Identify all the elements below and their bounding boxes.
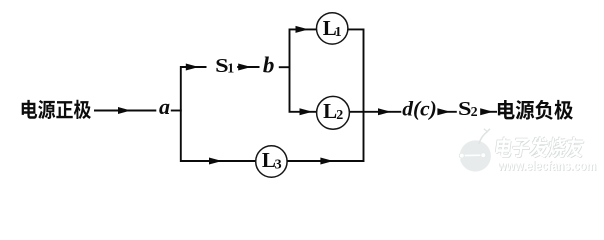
arrowhead: L3 toward right vertical [320, 158, 333, 165]
svg-text:2: 2 [336, 108, 343, 123]
wire: node a dash [171, 110, 182, 112]
svg-text:a: a [159, 94, 170, 119]
svg-text:d(c): d(c) [402, 96, 437, 120]
svg-text:1: 1 [227, 62, 234, 77]
arrowhead: S1 toward b [238, 64, 251, 71]
svg-text:3: 3 [275, 158, 282, 173]
wire: S2 to negative terminal [481, 111, 497, 113]
svg-text:2: 2 [471, 105, 478, 120]
svg-text:L: L [323, 99, 337, 123]
wire: b dash to split vertical [279, 66, 290, 68]
lamp L1 [317, 13, 348, 44]
arrowhead: junction toward d(c) [378, 108, 391, 115]
arrowhead: S2 toward negative terminal [480, 108, 493, 115]
wire: positive terminal to node a [94, 110, 156, 112]
arrowhead: toward a [118, 107, 131, 114]
svg-text:www.elecfans.com: www.elecfans.com [497, 158, 596, 174]
arrowhead: toward L3 [209, 158, 222, 165]
wire: split vertical with branches to L1 and L2 [290, 29, 317, 111]
arrowhead: into L2 [300, 108, 313, 115]
arrowhead: toward S1 [186, 64, 199, 71]
lamp L2 [317, 96, 350, 129]
wire: vertical from a, top branch to S1, bottom branch to L3 [181, 67, 256, 161]
arrowhead: into L1 [296, 26, 309, 33]
watermark text 电子发烧友 [494, 136, 585, 158]
wire: d(c) to S2 [438, 111, 457, 113]
lamp L3 [256, 146, 287, 177]
wire: S1 to b [237, 66, 259, 68]
wire: L1 to right vertical down to L3 row [287, 29, 363, 161]
arrowhead: d(c) toward S2 [437, 108, 450, 115]
svg-text:b: b [263, 53, 275, 78]
svg-text:1: 1 [335, 25, 342, 40]
wire: L2 output through junction to d(c) [349, 111, 401, 113]
svg-text:S: S [458, 98, 472, 120]
text 电源正极 [22, 100, 91, 119]
text 电源负极 [498, 100, 573, 120]
watermark logo [452, 129, 491, 172]
